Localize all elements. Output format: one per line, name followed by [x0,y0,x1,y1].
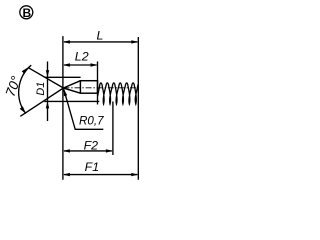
arrow F1 right [131,173,138,176]
70 deg upper extension line [28,67,64,88]
view label badge circle B [20,6,33,19]
arrow D1 bottom pointing up [46,101,49,108]
70 deg lower extension line [20,88,63,116]
wire right extension line [137,37,139,180]
dimension line F2 [64,150,112,152]
arrow D1 top pointing down [46,70,49,77]
svg-text:F2: F2 [84,138,99,152]
arrow F1 left [63,173,70,176]
svg-text:F1: F1 [85,160,99,174]
arrow F2 left [63,149,70,152]
dimension line L [64,41,137,43]
arrow arc top [22,67,29,74]
arrow R0,7 leader [64,89,68,96]
arrow L2 left [63,63,70,66]
svg-text:D1: D1 [35,82,47,96]
70 deg dimension arc [19,65,32,113]
svg-text:L2: L2 [75,50,89,64]
svg-text:L: L [97,29,104,43]
wire mid extension line for L2 [97,62,99,105]
arrow arc bottom [20,106,26,113]
dimension line L2 [64,64,97,66]
svg-text:R0,7: R0,7 [79,114,104,127]
cone lower edge [63,88,80,93]
svg-text:70°: 70° [3,74,24,99]
plunger body rectangle [80,81,97,94]
D1 dimension line [47,62,49,122]
arrow L left [63,40,70,43]
leader line R0,7 [64,89,104,129]
D1 bottom extension line [44,100,99,102]
spring coil wave [98,83,138,104]
dimension line F1 [64,174,137,176]
svg-text:B: B [22,6,31,20]
arrow L2 right [91,63,98,66]
wire F2 right extension line [112,102,114,156]
node centerline dash-dot [63,87,136,89]
cone upper edge [63,81,80,88]
wire left extension line [62,36,64,180]
D1 top extension line [44,76,80,78]
arrow L right [131,40,138,43]
arrow F2 right [106,149,113,152]
